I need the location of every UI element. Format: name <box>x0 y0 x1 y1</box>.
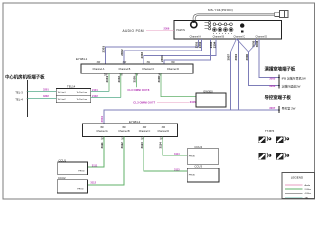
svg-text:AUDIO PGM: AUDIO PGM <box>123 29 144 33</box>
svg-text:Channel A: Channel A <box>190 36 202 39</box>
svg-text:3006: 3006 <box>269 84 275 88</box>
EY484-2 3W labels top <box>100 127 166 129</box>
svg-text:3106: 3106 <box>190 100 196 104</box>
svg-text:Channel D: Channel D <box>158 130 170 133</box>
svg-text:3113: 3113 <box>174 168 180 172</box>
svg-text:2304: 2304 <box>160 55 164 62</box>
svg-text:演播室墙端子板: 演播室墙端子板 <box>265 66 296 73</box>
svg-text:Channel A: Channel A <box>96 130 108 133</box>
svg-text:IFB 演播厅耳机2W: IFB 演播厅耳机2W <box>282 76 306 81</box>
wire bus amp ChB to EY484-1 C <box>144 39 216 64</box>
amp cable gland knob <box>191 20 197 27</box>
wire EY484-2 D to CCU4 <box>163 137 188 156</box>
wire amp ChC straight down <box>238 39 240 110</box>
wire amp ChC split right to studio return <box>237 39 249 52</box>
svg-text:Audio: Audio <box>305 184 311 187</box>
svg-text:2303: 2303 <box>140 52 144 59</box>
svg-text:3201: 3201 <box>43 88 49 92</box>
svg-text:CL3 OMNI OUT8: CL3 OMNI OUT8 <box>127 88 149 92</box>
amplifier MS-Y04(PROD) box <box>174 21 282 39</box>
legend 4-wire line <box>285 192 303 194</box>
svg-text:4-Wire: 4-Wire <box>305 192 312 195</box>
EY484-1 bottom stubs (green) <box>109 73 196 97</box>
svg-text:中心机房机柜端子板: 中心机房机柜端子板 <box>5 73 45 80</box>
speaker SP2 <box>276 137 289 144</box>
svg-text:3112: 3112 <box>90 180 96 184</box>
amp right knob <box>240 23 244 27</box>
svg-text:3005: 3005 <box>269 76 275 80</box>
svg-text:2302: 2302 <box>198 41 202 48</box>
svg-text:导控室端子板: 导控室端子板 <box>265 94 292 101</box>
svg-text:2101: 2101 <box>92 88 98 92</box>
net labels at amp stubs <box>195 40 260 60</box>
net labels at EY484-2 stubs <box>100 142 163 149</box>
svg-text:Channel C: Channel C <box>139 130 151 133</box>
power cord <box>193 14 275 22</box>
svg-text:3004: 3004 <box>100 116 104 123</box>
svg-text:3114: 3114 <box>159 142 163 149</box>
svg-text:3114: 3114 <box>174 152 180 156</box>
EY484-2 3W labels below <box>101 139 164 141</box>
svg-text:TEL-4: TEL-4 <box>15 98 23 102</box>
svg-text:3202: 3202 <box>43 94 49 98</box>
svg-text:LEGEND: LEGEND <box>291 176 304 180</box>
svg-text:Channel C: Channel C <box>234 36 246 39</box>
svg-text:To Part Line: To Part Line <box>77 98 89 101</box>
node 3006 <box>278 85 280 87</box>
svg-text:Tel Line2: Tel Line2 <box>58 99 67 101</box>
amp knob cluster <box>212 23 233 32</box>
svg-text:TEL14: TEL14 <box>67 84 76 88</box>
speaker SP3 <box>258 153 271 160</box>
svg-text:MS-Y04(PROD): MS-Y04(PROD) <box>208 8 233 12</box>
net labels at EY484-1 bottom stubs <box>105 76 161 83</box>
wire EY484-2 B to CCU2 <box>87 137 124 186</box>
svg-text:3106: 3106 <box>157 76 161 83</box>
svg-text:Channel C: Channel C <box>142 67 154 71</box>
svg-text:Channel A: Channel A <box>93 67 105 71</box>
wire AUDIO PGM to amp <box>146 29 174 31</box>
wire amp ChD left to v247 <box>255 39 257 45</box>
svg-text:Channel D: Channel D <box>167 67 179 71</box>
svg-text:2302: 2302 <box>120 49 124 56</box>
wire amp ChD right to IFB point <box>259 39 279 78</box>
TEL14 box <box>56 88 91 102</box>
speaker SP1 <box>258 137 271 144</box>
EY484-2 channel labels <box>96 130 169 133</box>
svg-text:3105: 3105 <box>133 76 137 83</box>
svg-text:Channel B: Channel B <box>118 67 130 71</box>
svg-text:PGM IN: PGM IN <box>176 29 185 32</box>
wire TEL-3 to TEL14 <box>28 91 57 93</box>
wire TEL14 out1 to EY484-1 <box>91 91 109 93</box>
control room rail <box>278 106 280 113</box>
svg-text:TT-B76: TT-B76 <box>265 129 275 133</box>
node 3007 <box>278 109 280 111</box>
svg-text:TEL-3: TEL-3 <box>15 90 23 94</box>
wire TEL14 out2 to EY484-1 <box>91 97 121 99</box>
speaker SP4 <box>276 153 289 160</box>
svg-text:PROD: PROD <box>77 189 84 191</box>
wire EY484-2 A to CCU1 <box>87 137 104 168</box>
svg-text:2-Wire: 2-Wire <box>305 188 312 191</box>
svg-text:2304: 2304 <box>213 41 217 48</box>
power plug <box>275 10 288 17</box>
legend TEL line <box>285 196 303 198</box>
svg-text:To Part Line: To Part Line <box>77 91 89 94</box>
wire bus amp ChB to EY484-1 D <box>164 39 211 64</box>
wire long horizontal to EY484-2 and control room <box>104 110 279 124</box>
svg-text:3111: 3111 <box>92 163 98 167</box>
svg-text:3111: 3111 <box>100 142 104 149</box>
svg-text:Channel B: Channel B <box>213 36 225 39</box>
svg-text:2102: 2102 <box>117 76 121 83</box>
wire amp ChC split left <box>231 39 237 52</box>
EY484-2 box <box>83 124 178 137</box>
svg-text:PROD: PROD <box>189 155 196 157</box>
svg-text:EY484-2: EY484-2 <box>129 120 141 124</box>
legend audio line <box>285 184 303 186</box>
border frame <box>3 3 315 199</box>
legend 2-wire line <box>285 188 303 190</box>
EY484-1 3W labels above <box>97 62 176 64</box>
svg-text:导控室 2W: 导控室 2W <box>282 105 296 110</box>
svg-text:Channel B: Channel B <box>118 130 130 133</box>
wire bus amp ChA to EY484-1 B <box>124 39 202 64</box>
EY484-1 channel labels <box>93 67 180 71</box>
net labels on bus drops <box>102 46 165 62</box>
svg-text:2306: 2306 <box>164 26 170 30</box>
svg-text:2102: 2102 <box>92 94 98 98</box>
node 3005 <box>278 77 280 79</box>
svg-text:CL3 OMNI OUT7: CL3 OMNI OUT7 <box>133 100 155 104</box>
amp channel labels <box>190 36 268 39</box>
svg-text:3007: 3007 <box>269 106 275 110</box>
wire TEL-4 to TEL14 <box>28 98 57 100</box>
amp input jacks column <box>205 22 211 30</box>
EY484-1 3W labels below <box>104 75 163 77</box>
svg-text:2301: 2301 <box>102 46 106 53</box>
svg-text:3007: 3007 <box>226 54 230 61</box>
svg-text:3113: 3113 <box>140 142 144 149</box>
EY484-1 box <box>81 64 193 73</box>
svg-text:3004: 3004 <box>234 54 238 61</box>
wire OUT7 to EW300 <box>157 101 190 103</box>
svg-text:PROD: PROD <box>189 174 196 176</box>
svg-text:Tel Line1: Tel Line1 <box>58 92 67 94</box>
wire EY484-2 C to CCU3 <box>144 137 188 172</box>
svg-text:PROD: PROD <box>78 171 85 173</box>
legend box <box>282 173 315 199</box>
wire bus amp ChA to EY484-1 A <box>106 39 199 64</box>
IFB terminal rail <box>278 75 280 89</box>
svg-text:Channel D: Channel D <box>256 36 268 39</box>
terminal rail <box>27 80 29 117</box>
svg-text:演播厅返送2W: 演播厅返送2W <box>282 83 301 88</box>
svg-text:2101: 2101 <box>105 76 109 83</box>
svg-text:EY484-1: EY484-1 <box>76 57 88 61</box>
svg-text:3112: 3112 <box>120 142 124 149</box>
EW300 box <box>196 93 226 107</box>
